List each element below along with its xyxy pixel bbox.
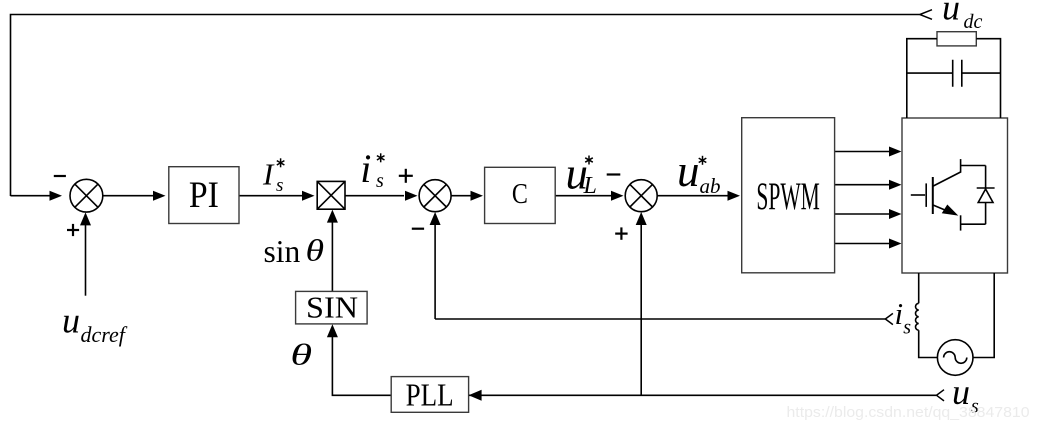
svg-text:L: L <box>583 173 597 199</box>
svg-text:ab: ab <box>700 174 721 198</box>
svg-text:θ: θ <box>290 339 312 372</box>
svg-text:u: u <box>62 300 80 340</box>
svg-text:u: u <box>677 146 700 196</box>
svg-text:SPWM: SPWM <box>756 175 820 218</box>
svg-text:s: s <box>276 175 283 196</box>
svg-text:dc: dc <box>964 11 983 33</box>
svg-text:C: C <box>512 179 528 210</box>
svg-text:I: I <box>262 157 275 192</box>
svg-text:PI: PI <box>189 175 219 216</box>
svg-text:i: i <box>360 146 371 191</box>
svg-text:s: s <box>376 170 384 192</box>
svg-text:θ: θ <box>306 234 325 268</box>
svg-text:i: i <box>895 296 904 331</box>
svg-text:https://blog.csdn.net/qq_38847: https://blog.csdn.net/qq_38847810 <box>787 404 1030 421</box>
svg-text:u: u <box>942 0 960 28</box>
svg-text:PLL: PLL <box>406 377 454 413</box>
svg-text:SIN: SIN <box>306 291 358 325</box>
svg-text:s: s <box>903 316 911 338</box>
svg-text:sin: sin <box>264 234 301 269</box>
svg-text:dcref: dcref <box>81 322 128 347</box>
